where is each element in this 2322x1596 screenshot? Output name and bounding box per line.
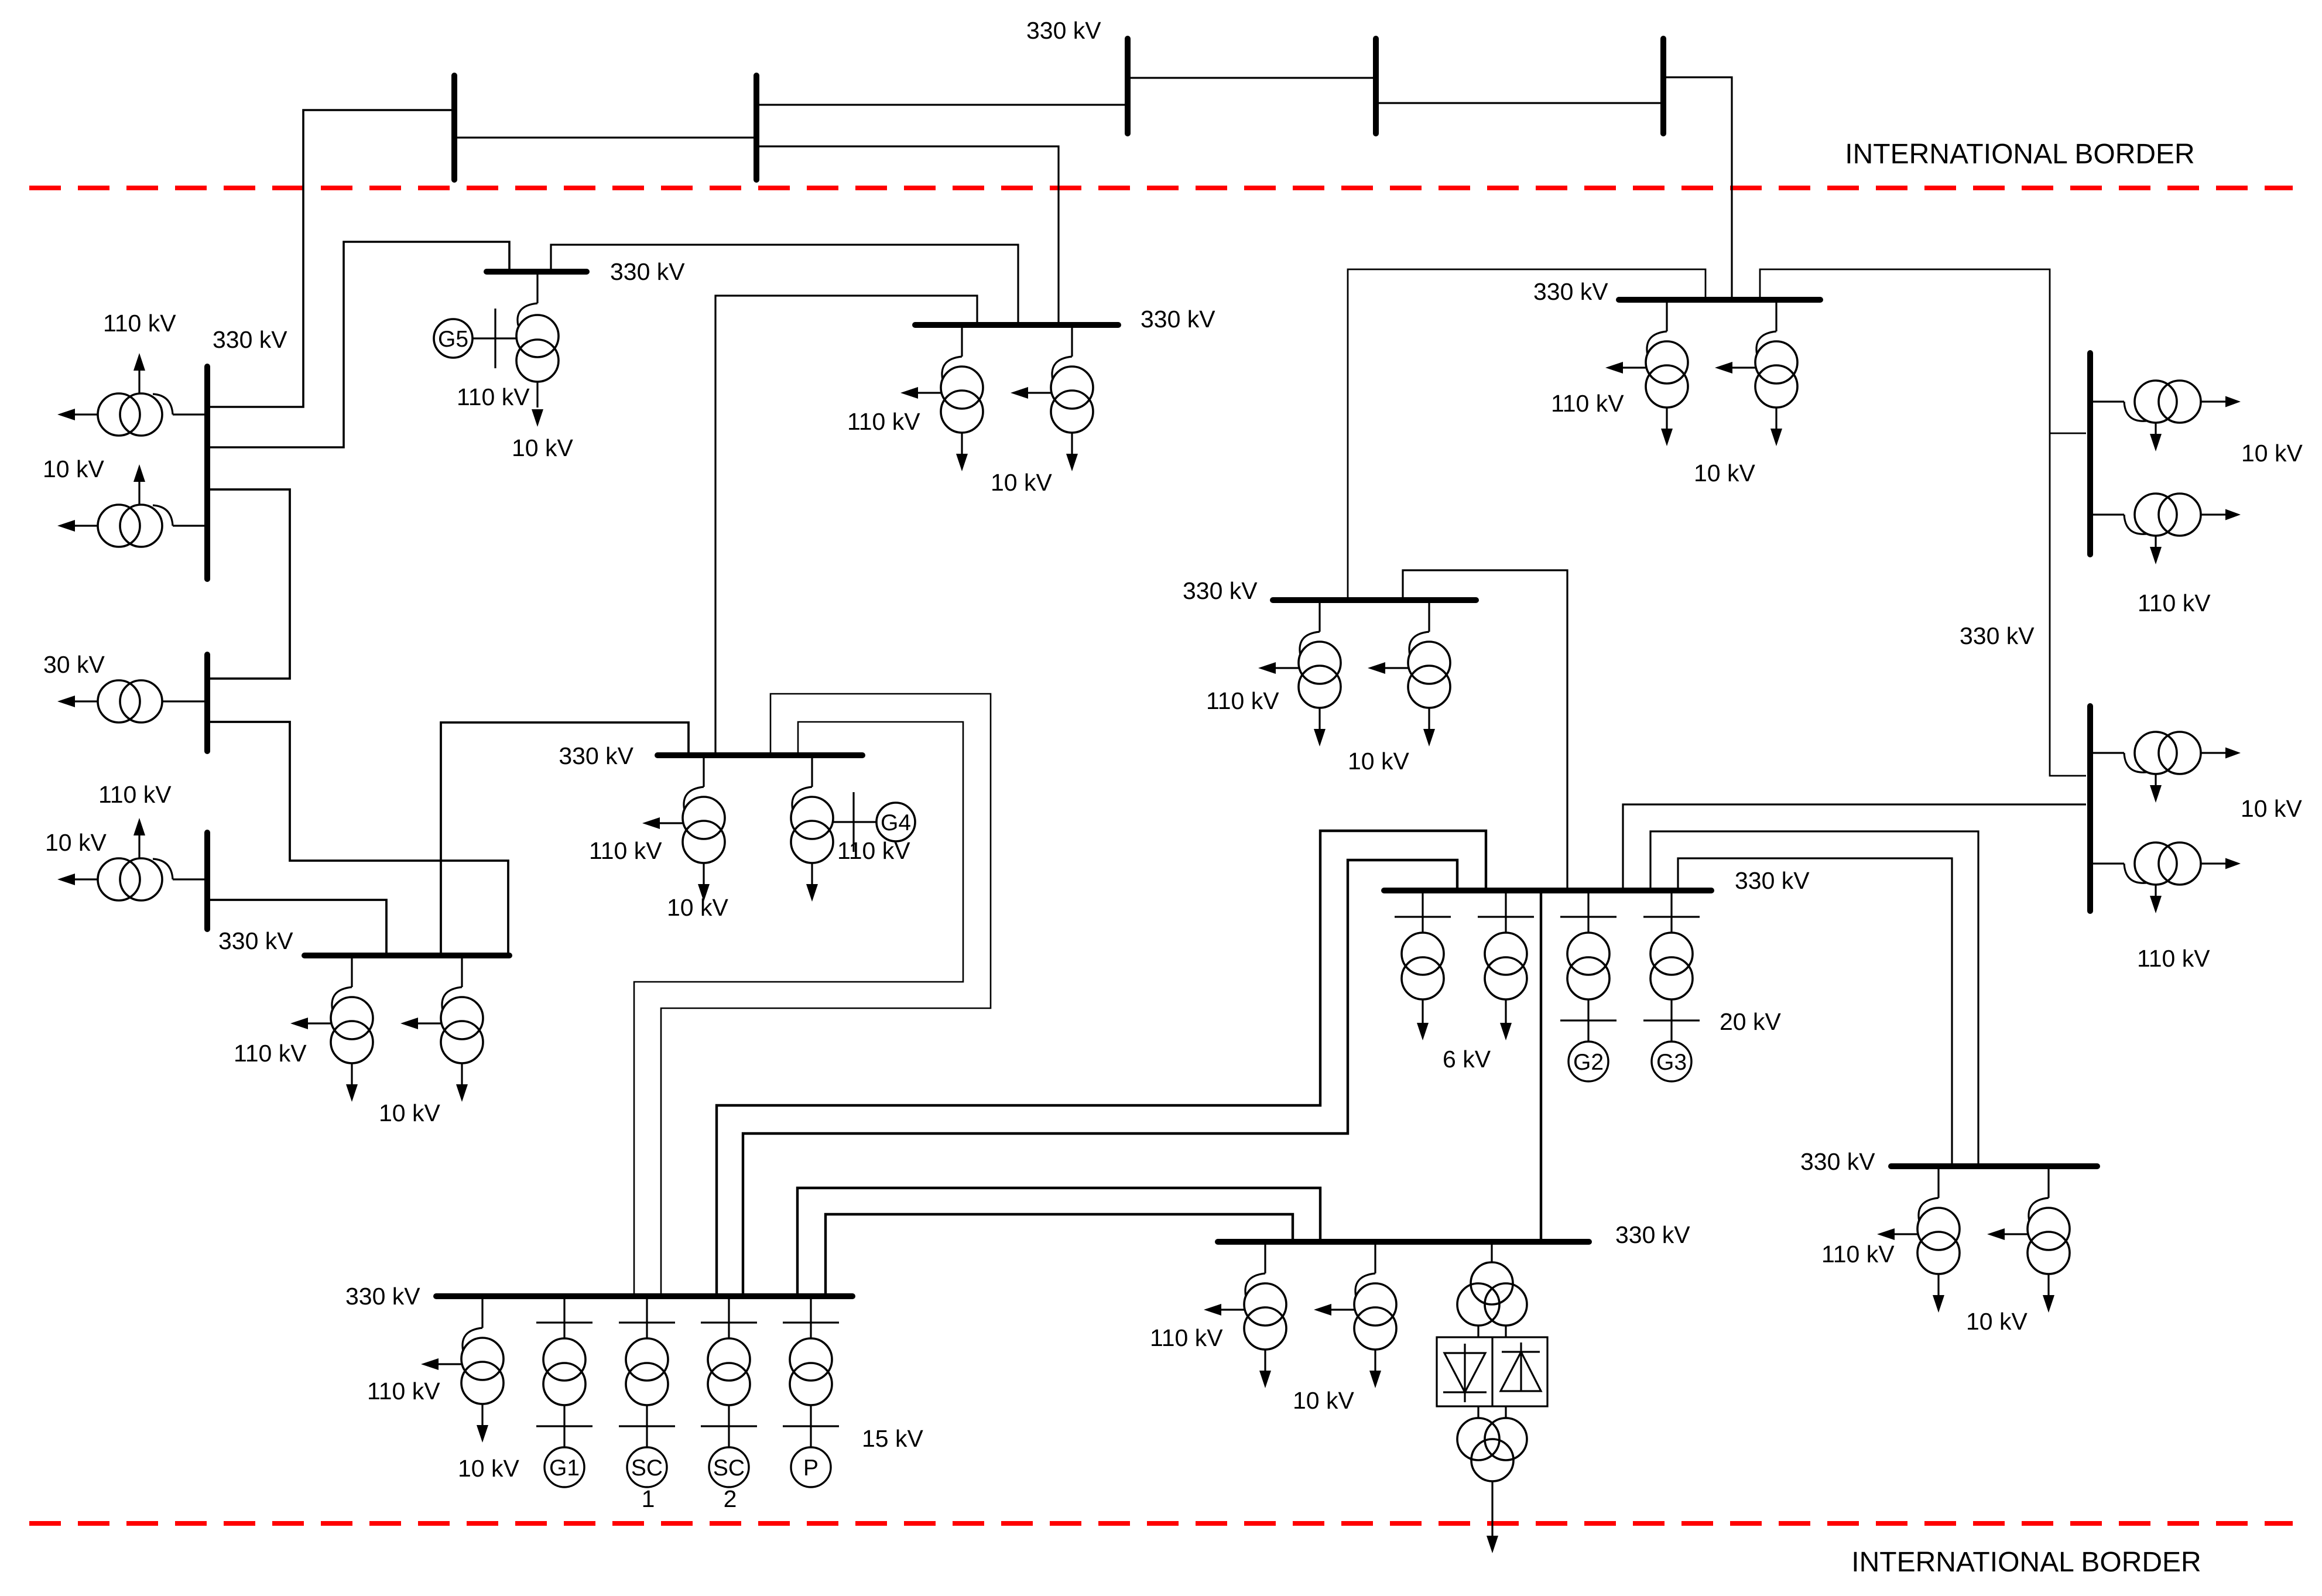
bus M (330 kV) — [915, 322, 1118, 328]
bus I (330 kV) — [1891, 1163, 2097, 1169]
svg-text:110 kV: 110 kV — [589, 837, 662, 864]
svg-text:G2: G2 — [1573, 1050, 1604, 1075]
international border line (top) — [29, 186, 2293, 190]
wire bus F to bus G (a) — [717, 831, 1486, 1293]
unit G1 (generator) — [536, 1296, 593, 1487]
wire bus C to bus D — [210, 900, 386, 953]
svg-text:G3: G3 — [1656, 1050, 1687, 1075]
label 10 kV (bus D) — [379, 1100, 440, 1126]
svg-text:15 kV: 15 kV — [862, 1425, 923, 1452]
wire B3-B4 — [1131, 77, 1373, 78]
label 110 kV (T-E2) — [837, 837, 910, 864]
wire bus G to bus H — [1540, 893, 1542, 1239]
svg-text:10 kV: 10 kV — [379, 1100, 440, 1126]
svg-text:10 kV: 10 kV — [458, 1455, 519, 1482]
label INTERNATIONAL BORDER (top) — [1845, 139, 2194, 170]
label 110 kV (bus J2) — [2137, 945, 2210, 972]
wire bus L to bus K — [1348, 269, 1705, 597]
svg-text:330 kV: 330 kV — [1960, 622, 2035, 649]
wire bus E to bus F (a) — [661, 694, 991, 1293]
transformer T-M2 — [1011, 325, 1093, 471]
svg-text:6 kV: 6 kV — [1443, 1046, 1491, 1073]
bus A (330 kV left) — [204, 367, 210, 579]
label 330 kV (right corridor) — [1960, 622, 2035, 649]
svg-text:P: P — [803, 1455, 818, 1481]
bus G (330 kV) — [1384, 888, 1711, 893]
bus B3 (foreign 330 kV) — [1125, 39, 1131, 133]
label 10 kV (bus J1) — [2241, 440, 2303, 467]
transformer T-G2 (6 kV) — [1478, 891, 1534, 1040]
svg-text:10 kV: 10 kV — [1966, 1308, 2028, 1335]
label 110 kV (bus A upper transformer) — [103, 310, 176, 337]
wire bus L to bus G — [1403, 570, 1567, 888]
svg-text:G5: G5 — [438, 327, 468, 352]
unit G3 (generator with transformer) — [1643, 891, 1700, 1081]
transformer T-D2 (110/10 kV) — [400, 955, 483, 1102]
svg-text:110 kV: 110 kV — [2137, 945, 2210, 972]
wire transformer to G4 — [833, 821, 876, 823]
bus E (330 kV, G4 station) — [657, 752, 862, 758]
label 330 kV (bus G) — [1735, 867, 1810, 894]
svg-text:110 kV: 110 kV — [847, 408, 920, 435]
svg-text:110 kV: 110 kV — [1551, 390, 1624, 417]
svg-text:10 kV: 10 kV — [512, 434, 573, 461]
label 330 kV (bus H) — [1615, 1221, 1690, 1248]
wire G5 to transformer — [472, 337, 516, 339]
G4 disconnect tick — [852, 792, 854, 852]
transformer T-B1 with 30 kV load arrow — [57, 680, 207, 722]
transformer T-H2 — [1314, 1242, 1396, 1388]
label 10 kV (bus L) — [1348, 748, 1409, 775]
bus B1 (foreign 330 kV) — [451, 76, 457, 180]
international border line (bottom) — [29, 1521, 2293, 1526]
unit SC 1 (synchronous condenser) — [619, 1296, 675, 1512]
generator G4 circle — [876, 803, 915, 841]
transformer T-E2 (generator transformer) — [791, 755, 833, 902]
wire bus G to bus I (a) — [1650, 831, 1978, 1163]
transformer T-G5 — [516, 272, 559, 427]
label 110 kV (bus C) — [98, 781, 172, 808]
svg-text:110 kV: 110 kV — [2138, 590, 2211, 617]
label 10 kV (bus M) — [991, 469, 1052, 496]
wire bus G to bus J2 — [1623, 804, 2086, 888]
bus H (330 kV) — [1218, 1239, 1589, 1245]
transformer T-I2 — [1987, 1166, 2070, 1313]
label 110 kV (G5) — [457, 383, 530, 410]
HVDC converter transformer (3-winding lower) — [1457, 1406, 1527, 1553]
bus G5st (330 kV) — [487, 269, 587, 275]
label INTERNATIONAL BORDER (bottom) — [1851, 1547, 2201, 1578]
generator G5 circle — [434, 319, 472, 358]
wire bus A to bus B — [210, 489, 290, 679]
label 6 kV — [1443, 1046, 1491, 1073]
label 110 kV (bus M) — [847, 408, 920, 435]
wire bus B to bus D — [210, 722, 508, 953]
svg-text:330 kV: 330 kV — [1183, 577, 1258, 604]
label 10 kV (G5) — [512, 434, 573, 461]
label 110 kV (bus I) — [1821, 1241, 1895, 1268]
svg-text:330 kV: 330 kV — [1800, 1148, 1875, 1175]
svg-text:G4: G4 — [881, 810, 911, 835]
svg-text:20 kV: 20 kV — [1720, 1008, 1781, 1035]
svg-text:SC: SC — [713, 1455, 745, 1481]
svg-text:110 kV: 110 kV — [234, 1040, 307, 1067]
label 330 kV (bus D) — [218, 927, 293, 954]
bus K (330 kV) — [1619, 297, 1820, 303]
wire bus E to bus M — [715, 296, 977, 752]
transformer T-K1 — [1605, 300, 1688, 446]
transformer T-M1 — [900, 325, 983, 471]
transformer T-E1 with arrows — [642, 755, 725, 902]
svg-text:110 kV: 110 kV — [837, 837, 910, 864]
svg-text:SC: SC — [631, 1455, 663, 1481]
label 10 kV (bus A lower transformer) — [43, 455, 104, 482]
svg-text:1: 1 — [642, 1485, 655, 1512]
transformer T-A1 with 110 kV up arrow and load arrow — [57, 353, 207, 436]
transformer T-F1 with arrows — [421, 1296, 504, 1443]
svg-text:10 kV: 10 kV — [43, 455, 104, 482]
svg-text:10 kV: 10 kV — [2241, 440, 2303, 467]
label 110 kV (bus K) — [1551, 390, 1624, 417]
transformer T-L1 — [1258, 600, 1341, 746]
unit SC 2 (synchronous condenser) — [701, 1296, 757, 1512]
transformer T-A2 with 10 kV up arrow and load arrow — [57, 464, 207, 547]
svg-text:330 kV: 330 kV — [213, 326, 287, 353]
svg-text:110 kV: 110 kV — [367, 1378, 440, 1405]
bus B5 (foreign 330 kV) — [1660, 39, 1666, 133]
bus B4 (foreign 330 kV) — [1373, 39, 1379, 133]
bus J2 (330 kV vertical) — [2087, 706, 2093, 911]
wire bus F to bus H (b) — [826, 1214, 1293, 1293]
label 15 kV — [862, 1425, 923, 1452]
svg-text:330 kV: 330 kV — [610, 258, 685, 285]
transformer T-I1 — [1877, 1166, 1960, 1313]
bus B2 (foreign 330 kV) — [754, 76, 759, 180]
transformer T-H1 — [1204, 1242, 1286, 1388]
transformer T-J1b with arrows — [2090, 494, 2241, 564]
svg-text:110 kV: 110 kV — [98, 781, 172, 808]
svg-text:G1: G1 — [549, 1455, 580, 1481]
label 330 kV (bus F) — [345, 1283, 420, 1310]
bus B (330 kV left middle) — [204, 655, 210, 751]
unit G2 (generator with transformer) — [1560, 891, 1617, 1081]
svg-text:110 kV: 110 kV — [103, 310, 176, 337]
label 10 kV (bus K) — [1694, 460, 1755, 487]
wire bus G to bus I (b) — [1678, 858, 1952, 1163]
bus F (330 kV) — [436, 1293, 852, 1299]
svg-text:330 kV: 330 kV — [345, 1283, 420, 1310]
transformer T-J1a with arrows — [2090, 381, 2241, 451]
svg-text:INTERNATIONAL BORDER: INTERNATIONAL BORDER — [1851, 1547, 2201, 1578]
label 330 kV (bus M) — [1141, 306, 1215, 333]
svg-text:INTERNATIONAL BORDER: INTERNATIONAL BORDER — [1845, 139, 2194, 170]
svg-text:10 kV: 10 kV — [1694, 460, 1755, 487]
svg-text:10 kV: 10 kV — [1348, 748, 1409, 775]
svg-text:10 kV: 10 kV — [991, 469, 1052, 496]
label 330 kV (bus I) — [1800, 1148, 1875, 1175]
G5 disconnect tick — [494, 309, 496, 368]
HVDC valve block — [1437, 1337, 1547, 1406]
svg-text:110 kV: 110 kV — [1821, 1241, 1895, 1268]
svg-text:10 kV: 10 kV — [45, 829, 107, 856]
HVDC converter transformer (3-winding upper) — [1457, 1242, 1527, 1337]
wire bus E to bus F (b) — [634, 722, 963, 1293]
svg-text:330 kV: 330 kV — [1533, 278, 1608, 305]
svg-text:110 kV: 110 kV — [1150, 1324, 1223, 1351]
label 330 kV (bus E) — [559, 742, 633, 769]
bus D (330 kV) — [304, 953, 509, 958]
wire bus D to bus E — [441, 722, 689, 953]
wire bus A to bus B1 (cross-border) — [210, 110, 451, 407]
svg-text:110 kV: 110 kV — [457, 383, 530, 410]
transformer T-K2 — [1715, 300, 1797, 446]
label 330 kV (top row) — [1026, 17, 1101, 44]
label 330 kV (bus A) — [213, 326, 287, 353]
label 110 kV (bus D) — [234, 1040, 307, 1067]
wire B2-B3 — [759, 104, 1125, 105]
transformer T-C1 with up and load arrows — [57, 818, 207, 900]
label 10 kV (bus E) — [667, 894, 728, 921]
bus L (330 kV) — [1273, 597, 1476, 603]
label 110 kV (T-E1) — [589, 837, 662, 864]
unit P — [783, 1296, 839, 1487]
wire bus A to G5 station bus — [210, 242, 509, 447]
label 10 kV (bus C) — [45, 829, 107, 856]
label 10 kV (bus J2) — [2241, 795, 2302, 822]
label 110 kV (bus H) — [1150, 1324, 1223, 1351]
label 10 kV (bus F) — [458, 1455, 519, 1482]
svg-text:10 kV: 10 kV — [667, 894, 728, 921]
wire B1-B2 — [457, 136, 754, 138]
svg-text:330 kV: 330 kV — [1615, 1221, 1690, 1248]
label 20 kV — [1720, 1008, 1781, 1035]
label 330 kV (bus K) — [1533, 278, 1608, 305]
svg-text:330 kV: 330 kV — [1026, 17, 1101, 44]
svg-text:10 kV: 10 kV — [2241, 795, 2302, 822]
label 330 kV (bus L) — [1183, 577, 1258, 604]
wire bus B2 to bus M — [759, 146, 1059, 322]
transformer T-G1 (6 kV) — [1395, 891, 1451, 1040]
svg-text:10 kV: 10 kV — [1293, 1387, 1354, 1414]
label 10 kV (bus H) — [1293, 1387, 1354, 1414]
svg-text:330 kV: 330 kV — [1141, 306, 1215, 333]
wire G5 station to bus M — [551, 245, 1018, 322]
bus J1 (330 kV vertical) — [2087, 353, 2093, 554]
wire branch to bus J1 — [2050, 433, 2086, 434]
label 330 kV (G5 station) — [610, 258, 685, 285]
label 30 kV — [43, 651, 105, 678]
transformer T-J2b with arrows — [2090, 842, 2241, 913]
wire B5 to bus K — [1666, 77, 1732, 297]
wire B4-B5 — [1379, 102, 1660, 104]
label 110 kV (bus J1) — [2138, 590, 2211, 617]
wire bus F to bus G (b) — [743, 860, 1457, 1293]
svg-text:330 kV: 330 kV — [218, 927, 293, 954]
transformer T-J2a with arrows — [2090, 732, 2241, 803]
svg-text:30 kV: 30 kV — [43, 651, 105, 678]
label 110 kV (bus L) — [1206, 687, 1279, 714]
svg-text:330 kV: 330 kV — [559, 742, 633, 769]
label 110 kV (bus F) — [367, 1378, 440, 1405]
wire bus F to bus H (a) — [797, 1188, 1320, 1293]
svg-text:110 kV: 110 kV — [1206, 687, 1279, 714]
bus C (330 kV lower left) — [204, 833, 210, 929]
svg-text:330 kV: 330 kV — [1735, 867, 1810, 894]
transformer T-L2 — [1368, 600, 1450, 746]
label 10 kV (bus I) — [1966, 1308, 2028, 1335]
wire bus K to buses J1/J2 — [1760, 269, 2086, 776]
transformer T-D1 (110/10 kV) — [290, 955, 373, 1102]
svg-text:2: 2 — [724, 1485, 737, 1512]
